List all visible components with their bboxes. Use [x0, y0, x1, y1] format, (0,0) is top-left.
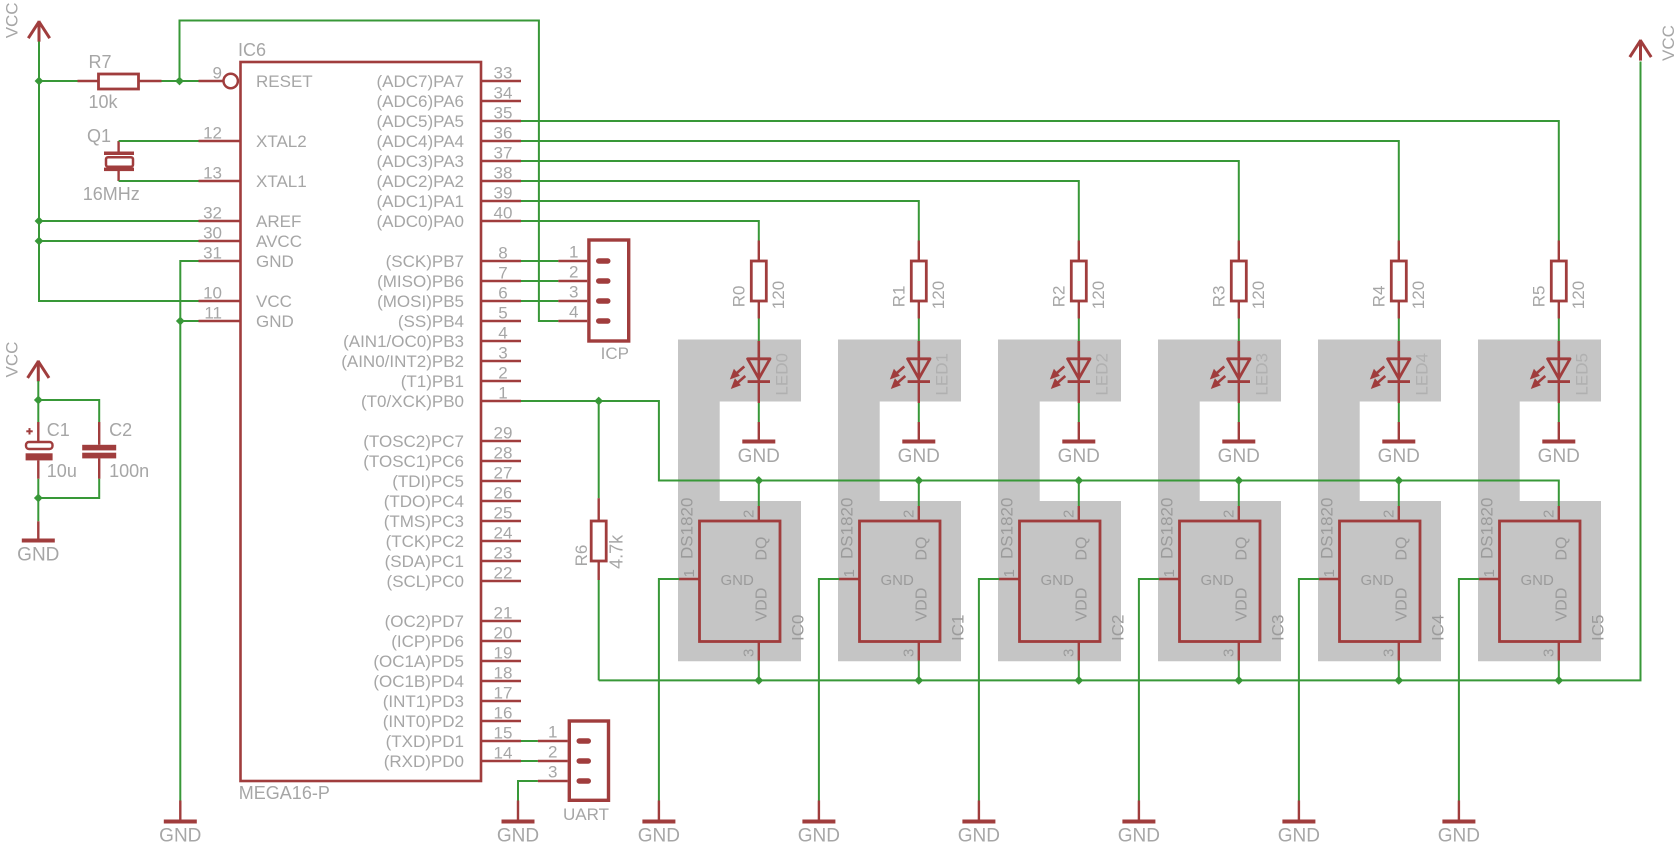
svg-text:(SCK)PB7: (SCK)PB7 — [386, 252, 464, 271]
wire PA5 to R5 — [521, 121, 1559, 241]
svg-text:(TDI)PC5: (TDI)PC5 — [392, 472, 464, 491]
ground GND channel 1 — [798, 801, 840, 847]
IC6 pin 13 XTAL1 — [199, 164, 307, 192]
wire VCC to C1/C2 — [37, 381, 39, 422]
svg-text:1: 1 — [681, 569, 698, 577]
svg-text:VCC: VCC — [1659, 25, 1678, 61]
svg-text:2: 2 — [1380, 510, 1397, 518]
svg-text:GND: GND — [1218, 446, 1260, 467]
svg-text:MEGA16-P: MEGA16-P — [239, 783, 330, 803]
svg-text:GND: GND — [958, 826, 1000, 847]
svg-text:GND: GND — [497, 826, 539, 847]
svg-text:120: 120 — [1249, 281, 1268, 309]
svg-text:IC6: IC6 — [238, 40, 266, 60]
IC6 pin 5 (SS)PB4 — [398, 304, 521, 332]
svg-text:GND: GND — [159, 826, 201, 847]
svg-text:C1: C1 — [47, 420, 70, 440]
IC6 pin 16 (INT0)PD2 — [383, 704, 521, 732]
svg-text:10u: 10u — [47, 461, 77, 481]
svg-text:2: 2 — [900, 510, 917, 518]
wire PA2 to R2 — [521, 181, 1079, 241]
svg-text:18: 18 — [494, 664, 513, 683]
svg-text:DQ: DQ — [754, 537, 771, 561]
svg-text:1: 1 — [498, 384, 507, 403]
wire AVCC — [39, 240, 199, 242]
svg-text:(SCL)PC0: (SCL)PC0 — [387, 572, 464, 591]
LED LED1 — [890, 341, 952, 396]
wire PD0/RXD to UART2 — [521, 760, 538, 762]
wire DQ drop ch2 — [1078, 481, 1080, 507]
svg-text:2: 2 — [548, 743, 557, 762]
svg-text:(OC2)PD7: (OC2)PD7 — [385, 612, 464, 631]
IC6 pin 22 (SCL)PC0 — [387, 564, 521, 592]
IC6 pin 30 AVCC — [199, 224, 302, 252]
svg-text:R7: R7 — [89, 52, 112, 72]
svg-text:GND: GND — [256, 252, 294, 271]
IC6 pin 32 AREF — [199, 204, 302, 232]
svg-text:R4: R4 — [1370, 286, 1389, 308]
svg-text:35: 35 — [494, 104, 513, 123]
node DQ junction ch2 — [1074, 476, 1083, 485]
svg-text:(TMS)PC3: (TMS)PC3 — [384, 512, 464, 531]
svg-text:VCC: VCC — [3, 2, 22, 38]
svg-text:(SDA)PC1: (SDA)PC1 — [385, 552, 464, 571]
svg-text:23: 23 — [494, 544, 513, 563]
ground GND channel 2 — [958, 801, 1000, 847]
svg-text:DS1820: DS1820 — [997, 498, 1016, 559]
ground GND below IC6 — [159, 801, 201, 847]
node VDD junction ch4 — [1394, 676, 1403, 685]
DS1820 IC2 — [997, 498, 1127, 661]
wire LED1 to ground — [918, 383, 920, 404]
svg-text:3: 3 — [1060, 649, 1077, 657]
svg-text:R1: R1 — [890, 286, 909, 308]
resistor R0 120 — [730, 241, 788, 319]
svg-text:6: 6 — [498, 284, 507, 303]
svg-text:XTAL2: XTAL2 — [256, 132, 307, 151]
svg-text:(TOSC2)PC7: (TOSC2)PC7 — [363, 432, 464, 451]
svg-text:2: 2 — [1060, 510, 1077, 518]
svg-text:16: 16 — [494, 704, 513, 723]
svg-text:11: 11 — [204, 304, 222, 323]
svg-text:40: 40 — [494, 204, 513, 223]
wire LED2 to ground — [1078, 383, 1080, 404]
svg-text:28: 28 — [494, 444, 513, 463]
svg-text:R2: R2 — [1050, 286, 1069, 308]
module highlight block IC3 channel — [1158, 340, 1281, 662]
svg-text:DS1820: DS1820 — [1477, 498, 1496, 559]
wire IC3 VDD — [1238, 661, 1240, 681]
IC6 pin 15 (TXD)PD1 — [386, 724, 521, 752]
IC6 pin 29 (TOSC2)PC7 — [363, 424, 521, 452]
svg-text:3: 3 — [1540, 649, 1557, 657]
IC6 pin 21 (OC2)PD7 — [385, 604, 521, 632]
wire LED4 to ground — [1398, 383, 1400, 404]
svg-text:GND: GND — [1118, 826, 1160, 847]
node VCC/AREF junction — [35, 217, 44, 226]
ground GND below LED4 — [1378, 422, 1420, 467]
svg-text:Q1: Q1 — [87, 126, 111, 146]
svg-text:7: 7 — [498, 264, 507, 283]
svg-text:GND: GND — [1378, 446, 1420, 467]
node C1/C2 bottom junction — [34, 494, 43, 503]
svg-text:10k: 10k — [89, 92, 119, 112]
wire XTAL1 — [119, 180, 199, 182]
power symbol VCC top-right — [1630, 25, 1678, 61]
wire R3 to LED3 — [1238, 319, 1240, 342]
svg-text:(RXD)PD0: (RXD)PD0 — [384, 752, 464, 771]
wire R5 to LED5 — [1558, 319, 1560, 342]
svg-text:15: 15 — [494, 724, 513, 743]
svg-text:3: 3 — [740, 649, 757, 657]
svg-text:IC5: IC5 — [1588, 615, 1607, 641]
svg-text:(T1)PB1: (T1)PB1 — [401, 372, 464, 391]
svg-text:ICP: ICP — [601, 344, 629, 363]
svg-text:3: 3 — [569, 283, 578, 302]
svg-text:DQ: DQ — [914, 537, 931, 561]
IC6 pin 25 (TMS)PC3 — [384, 504, 521, 532]
capacitor C1 10u — [26, 420, 77, 481]
svg-text:VDD: VDD — [754, 588, 771, 622]
svg-text:IC3: IC3 — [1268, 615, 1287, 641]
svg-text:20: 20 — [494, 624, 513, 643]
svg-text:24: 24 — [494, 524, 513, 543]
wire R0 to LED0 — [758, 319, 760, 342]
connector ICP — [558, 240, 629, 363]
svg-text:LED4: LED4 — [1412, 353, 1431, 396]
ground GND below LED3 — [1218, 422, 1260, 467]
wire IC0 VDD — [758, 661, 760, 681]
svg-text:IC2: IC2 — [1108, 615, 1127, 641]
svg-text:10: 10 — [203, 284, 222, 303]
wire R4 to LED4 — [1398, 319, 1400, 342]
svg-text:14: 14 — [494, 744, 513, 763]
ground GND channel 0 — [638, 801, 680, 847]
svg-text:4.7k: 4.7k — [606, 534, 626, 569]
wire LED3 to ground — [1238, 383, 1240, 404]
wire IC1 VDD — [918, 661, 920, 681]
module highlight block IC1 channel — [838, 340, 961, 662]
wire UART3 to GND — [518, 781, 538, 801]
svg-text:2: 2 — [498, 364, 507, 383]
IC6 pin 6 (MOSI)PB5 — [377, 284, 521, 312]
svg-text:3: 3 — [498, 344, 507, 363]
node VDD junction ch2 — [1074, 676, 1083, 685]
svg-text:IC1: IC1 — [948, 615, 967, 641]
ground GND below LED2 — [1058, 422, 1100, 467]
svg-text:R6: R6 — [572, 545, 591, 567]
wire IC4 VDD — [1398, 661, 1400, 681]
module highlight block IC2 channel — [998, 340, 1121, 662]
svg-text:AREF: AREF — [256, 212, 301, 231]
IC6 pin 17 (INT1)PD3 — [383, 684, 521, 712]
LED LED2 — [1050, 341, 1112, 396]
svg-text:2: 2 — [569, 263, 578, 282]
wire R1 to LED1 — [918, 319, 920, 342]
resistor R4 120 — [1370, 241, 1428, 319]
resistor R2 120 — [1050, 241, 1108, 319]
IC6 pin 34 (ADC6)PA6 — [376, 84, 521, 112]
wire XTAL2 — [119, 140, 199, 142]
LED LED0 — [730, 341, 792, 396]
svg-text:GND: GND — [738, 446, 780, 467]
resistor R5 120 — [1530, 241, 1588, 319]
wire DQ drop ch0 — [758, 481, 760, 507]
wire VCC rail left — [39, 42, 199, 302]
svg-text:1: 1 — [569, 243, 578, 262]
IC6 pin 11 GND — [199, 304, 294, 332]
svg-text:3: 3 — [900, 649, 917, 657]
IC6 pin 31 GND — [199, 244, 294, 272]
DS1820 IC5 — [1477, 498, 1607, 661]
resistor R6 4.7k — [572, 498, 626, 580]
wire R7 left — [39, 80, 78, 82]
svg-text:GND: GND — [721, 572, 755, 589]
svg-text:(ADC5)PA5: (ADC5)PA5 — [376, 112, 464, 131]
svg-text:LED3: LED3 — [1252, 353, 1271, 396]
node VDD junction ch1 — [914, 676, 923, 685]
wire R2 to LED2 — [1078, 319, 1080, 342]
IC6 pin 8 (SCK)PB7 — [386, 244, 521, 272]
node VDD junction ch5 — [1554, 676, 1563, 685]
IC6 pin 2 (T1)PB1 — [401, 364, 521, 392]
wire C1 bottom — [37, 479, 39, 522]
module highlight block IC4 channel — [1318, 340, 1441, 662]
svg-text:GND: GND — [798, 826, 840, 847]
ground GND below LED5 — [1538, 422, 1580, 467]
svg-text:VDD: VDD — [1234, 588, 1251, 622]
wire PA4 to R4 — [521, 141, 1399, 241]
IC6 pin 1 (T0/XCK)PB0 — [361, 384, 521, 412]
svg-text:(TXD)PD1: (TXD)PD1 — [386, 732, 464, 751]
svg-text:22: 22 — [494, 564, 513, 583]
wire C2 bottom branch — [38, 479, 99, 498]
node PB0/R6 junction — [594, 397, 603, 406]
svg-text:(ADC2)PA2: (ADC2)PA2 — [376, 172, 464, 191]
svg-text:36: 36 — [494, 124, 513, 143]
svg-text:(TCK)PC2: (TCK)PC2 — [386, 532, 464, 551]
svg-text:GND: GND — [898, 446, 940, 467]
wire PA1 to R1 — [521, 201, 919, 241]
svg-text:DQ: DQ — [1074, 537, 1091, 561]
IC6 pin 20 (ICP)PD6 — [391, 624, 521, 652]
svg-text:(TDO)PC4: (TDO)PC4 — [384, 492, 464, 511]
svg-text:37: 37 — [494, 144, 513, 163]
svg-text:GND: GND — [256, 312, 294, 331]
svg-text:DQ: DQ — [1394, 537, 1411, 561]
svg-text:(OC1B)PD4: (OC1B)PD4 — [373, 672, 464, 691]
IC6 pin 26 (TDO)PC4 — [384, 484, 521, 512]
node RESET junction — [175, 77, 184, 86]
wire DQ drop ch3 — [1238, 481, 1240, 507]
wire IC5 VDD — [1558, 661, 1560, 681]
wire PD1/TXD to UART1 — [521, 740, 538, 742]
wire RESET to ICP pin 4 — [180, 21, 559, 322]
wire PB0 one-wire DQ net — [521, 401, 1559, 506]
wire PB5/MOSI to ICP3 — [521, 300, 558, 302]
wire IC2 VDD — [1078, 661, 1080, 681]
resistor R1 120 — [890, 241, 948, 319]
wire R6 bottom — [598, 580, 600, 680]
resistor R3 120 — [1210, 241, 1268, 319]
svg-text:(SS)PB4: (SS)PB4 — [398, 312, 464, 331]
ground GND below C1/C2 — [17, 521, 59, 565]
svg-text:IC0: IC0 — [788, 615, 807, 641]
node DQ junction ch1 — [914, 476, 923, 485]
svg-text:VDD: VDD — [1554, 588, 1571, 622]
svg-text:1: 1 — [1481, 569, 1498, 577]
svg-text:(ADC6)PA6: (ADC6)PA6 — [376, 92, 464, 111]
wire VDD/VCC bus — [599, 62, 1641, 681]
svg-text:12: 12 — [203, 124, 222, 143]
IC6 pin 36 (ADC4)PA4 — [376, 124, 521, 152]
svg-text:DQ: DQ — [1554, 537, 1571, 561]
wire C2 top branch — [38, 400, 99, 422]
IC6 pin 24 (TCK)PC2 — [386, 524, 521, 552]
svg-text:3: 3 — [548, 763, 557, 782]
svg-text:GND: GND — [1538, 446, 1580, 467]
wire LED5 to ground — [1558, 383, 1560, 404]
svg-text:GND: GND — [1201, 572, 1235, 589]
svg-text:(AIN1/OC0)PB3: (AIN1/OC0)PB3 — [343, 332, 464, 351]
svg-text:(ADC1)PA1: (ADC1)PA1 — [376, 192, 464, 211]
svg-text:(ICP)PD6: (ICP)PD6 — [391, 632, 464, 651]
LED LED5 — [1530, 341, 1592, 396]
svg-text:GND: GND — [881, 572, 915, 589]
svg-text:LED1: LED1 — [932, 353, 951, 396]
svg-text:UART: UART — [563, 805, 609, 824]
wire R6 top — [598, 401, 600, 498]
svg-text:R5: R5 — [1530, 286, 1549, 308]
svg-text:C2: C2 — [109, 420, 132, 440]
svg-text:(OC1A)PD5: (OC1A)PD5 — [373, 652, 464, 671]
svg-text:26: 26 — [494, 484, 513, 503]
svg-text:GND: GND — [1438, 826, 1480, 847]
wire GND pin 11 — [180, 320, 198, 322]
svg-text:DS1820: DS1820 — [1157, 498, 1176, 559]
wire IC4 GND — [1299, 579, 1319, 801]
node VDD junction ch0 — [754, 676, 763, 685]
svg-text:GND: GND — [17, 545, 59, 566]
module highlight block IC5 channel — [1478, 340, 1601, 662]
svg-text:9: 9 — [213, 64, 222, 83]
svg-text:31: 31 — [203, 244, 222, 263]
svg-text:120: 120 — [929, 281, 948, 309]
svg-text:R3: R3 — [1210, 286, 1229, 308]
svg-text:(AIN0/INT2)PB2: (AIN0/INT2)PB2 — [341, 352, 464, 371]
svg-text:3: 3 — [1220, 649, 1237, 657]
svg-text:16MHz: 16MHz — [83, 184, 140, 204]
IC6 pin 14 (RXD)PD0 — [384, 744, 521, 772]
wire IC1 GND — [819, 579, 839, 801]
node VCC/C2 junction — [34, 396, 43, 405]
svg-text:1: 1 — [1161, 569, 1178, 577]
power symbol VCC mid-left — [3, 342, 49, 382]
IC6 pin 19 (OC1A)PD5 — [373, 644, 521, 672]
svg-text:(TOSC1)PC6: (TOSC1)PC6 — [363, 452, 464, 471]
svg-text:2: 2 — [1220, 510, 1237, 518]
svg-text:R0: R0 — [730, 286, 749, 308]
ground GND channel 5 — [1438, 801, 1480, 847]
svg-text:(ADC0)PA0: (ADC0)PA0 — [376, 212, 464, 231]
svg-text:VCC: VCC — [256, 292, 292, 311]
svg-text:XTAL1: XTAL1 — [256, 172, 307, 191]
svg-text:39: 39 — [494, 184, 513, 203]
DS1820 IC0 — [677, 498, 807, 661]
svg-text:(INT1)PD3: (INT1)PD3 — [383, 692, 464, 711]
svg-text:25: 25 — [494, 504, 513, 523]
svg-text:(MISO)PB6: (MISO)PB6 — [377, 272, 464, 291]
svg-text:27: 27 — [494, 464, 513, 483]
svg-text:120: 120 — [1409, 281, 1428, 309]
svg-text:LED0: LED0 — [772, 353, 791, 396]
connector UART — [538, 721, 609, 824]
wire IC5 GND — [1459, 579, 1479, 801]
module highlight block IC0 channel — [678, 340, 801, 662]
svg-text:2: 2 — [740, 510, 757, 518]
power symbol VCC top-left — [3, 2, 50, 41]
svg-text:GND: GND — [1278, 826, 1320, 847]
DS1820 IC3 — [1157, 498, 1287, 661]
node DQ junction ch3 — [1234, 476, 1243, 485]
svg-text:VDD: VDD — [1074, 588, 1091, 622]
svg-text:DS1820: DS1820 — [677, 498, 696, 559]
svg-text:4: 4 — [498, 324, 507, 343]
svg-text:(ADC7)PA7: (ADC7)PA7 — [376, 72, 464, 91]
IC6 pin 39 (ADC1)PA1 — [376, 184, 521, 212]
wire IC0 GND — [659, 579, 679, 801]
IC6 pin 4 (AIN1/OC0)PB3 — [343, 324, 521, 352]
wire DQ drop ch4 — [1398, 481, 1400, 507]
LED LED4 — [1370, 341, 1432, 396]
svg-text:17: 17 — [494, 684, 513, 703]
IC6 pin 23 (SDA)PC1 — [385, 544, 521, 572]
wire LED0 to ground — [758, 383, 760, 404]
svg-text:120: 120 — [1089, 281, 1108, 309]
wire GND pins 31/11 — [180, 261, 198, 801]
capacitor C2 100n — [82, 420, 149, 481]
svg-text:1: 1 — [841, 569, 858, 577]
IC6 pin 7 (MISO)PB6 — [377, 264, 521, 292]
svg-text:33: 33 — [494, 64, 513, 83]
IC6 pin 38 (ADC2)PA2 — [376, 164, 521, 192]
svg-text:120: 120 — [769, 281, 788, 309]
IC6 pin 35 (ADC5)PA5 — [376, 104, 521, 132]
svg-text:32: 32 — [203, 204, 222, 223]
wire PA0 to R0 — [521, 221, 759, 241]
svg-text:(T0/XCK)PB0: (T0/XCK)PB0 — [361, 392, 464, 411]
svg-text:34: 34 — [494, 84, 513, 103]
svg-text:LED5: LED5 — [1572, 353, 1591, 396]
svg-text:GND: GND — [1041, 572, 1075, 589]
svg-text:100n: 100n — [109, 461, 149, 481]
DS1820 IC1 — [837, 498, 967, 661]
IC6 pin 33 (ADC7)PA7 — [376, 64, 521, 92]
svg-text:5: 5 — [498, 304, 507, 323]
svg-text:(MOSI)PB5: (MOSI)PB5 — [377, 292, 464, 311]
IC6 pin 40 (ADC0)PA0 — [376, 204, 521, 232]
svg-text:IC4: IC4 — [1428, 615, 1447, 641]
svg-text:GND: GND — [1361, 572, 1395, 589]
IC6 pin 27 (TDI)PC5 — [392, 464, 521, 492]
IC U IC6 MEGA16-P outline — [241, 62, 482, 781]
svg-text:(ADC3)PA3: (ADC3)PA3 — [376, 152, 464, 171]
LED LED3 — [1210, 341, 1272, 396]
node GND pin11 junction — [176, 317, 185, 326]
DS1820 IC4 — [1317, 498, 1447, 661]
node DQ junction ch4 — [1394, 476, 1403, 485]
svg-text:38: 38 — [494, 164, 513, 183]
